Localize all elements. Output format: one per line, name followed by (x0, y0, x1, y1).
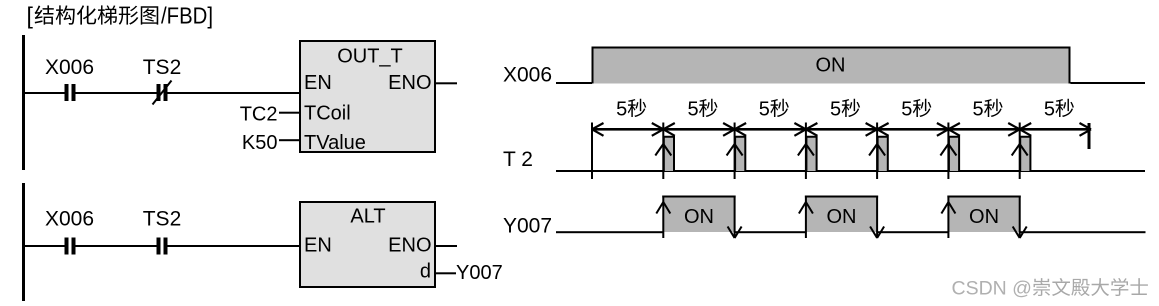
function block OUT_T body (300, 41, 435, 152)
T2 pulse #4 up arrowhead (869, 144, 877, 156)
svg-text:EN: EN (304, 235, 332, 257)
svg-text:ENO: ENO (388, 235, 431, 257)
Y007 low level segment 2 (735, 231, 806, 233)
wire rung 1 between contacts (76, 92, 157, 94)
X006 ON pulse (high level) (593, 48, 1070, 84)
Y007 pulse #3 rising-edge arrow (941, 202, 948, 214)
wire rung 2 between contacts (76, 245, 157, 247)
time boundary tick #5 (876, 123, 878, 180)
contact X006 NO (rung 2) (65, 238, 69, 255)
wire d output to Y007 (436, 272, 456, 274)
svg-text:5: 5 (830, 99, 841, 121)
svg-text:5: 5 (973, 99, 984, 121)
svg-text:TC2: TC2 (240, 103, 278, 125)
wire rung 2 from rail to contact X006 (24, 245, 65, 247)
T2 pulse #2 up arrowhead (727, 144, 735, 156)
contact X006 NO (rung 1) (65, 84, 69, 101)
T2 pulse #4 (878, 137, 888, 171)
svg-text:TS2: TS2 (143, 208, 182, 231)
svg-text:TS2: TS2 (143, 56, 182, 79)
svg-text:TValue: TValue (304, 132, 366, 154)
T2 pulse #3 up arrowhead (798, 144, 806, 156)
svg-text:Y007: Y007 (456, 262, 503, 284)
svg-text:CSDN @: CSDN @ (952, 278, 1032, 300)
svg-text:X006: X006 (45, 56, 94, 79)
Y007 ON pulse #3 (948, 197, 1019, 232)
Y007 pulse #3 falling-edge arrow (1013, 227, 1020, 239)
T2 base line (556, 170, 1145, 172)
contact TS2 NO (rung 2) (157, 238, 161, 255)
Y007 pulse #1 falling-edge arrow (728, 227, 735, 239)
T2 pulse #6 up arrowhead (1012, 144, 1020, 156)
wire TC2 to TCoil pin (279, 112, 300, 114)
Y007 ON pulse #2 (806, 197, 877, 232)
svg-text:5: 5 (1044, 99, 1055, 121)
svg-text:X006: X006 (503, 64, 552, 87)
Y007 pulse #2 falling-edge arrow (870, 227, 877, 239)
wire rung 1 from rail to contact X006 (24, 92, 65, 94)
Y007 pulse #1 rising-edge arrow (656, 202, 663, 214)
svg-text:ON: ON (816, 55, 846, 77)
svg-text:Y007: Y007 (503, 215, 552, 238)
time boundary tick #6 (947, 123, 949, 180)
T2 pulse #2 (735, 137, 745, 171)
svg-text:ON: ON (684, 206, 714, 228)
Y007 low level segment 4 (1020, 231, 1146, 233)
Y007 pulse #2 rising-edge arrow (799, 202, 806, 214)
svg-text:EN: EN (304, 72, 332, 94)
T2 pulse #1 up arrowhead (655, 144, 663, 156)
time boundary tick #3 (734, 123, 736, 180)
Y007 low level segment 1 (556, 231, 663, 233)
X006 low level after pulse (1071, 82, 1146, 84)
svg-text:[: [ (27, 3, 34, 29)
left power rail (network 2) (22, 183, 25, 301)
time boundary tick #4 (805, 123, 807, 180)
left power rail (network 1) (22, 35, 25, 170)
time boundary tick #2 (662, 123, 664, 180)
svg-text:5: 5 (687, 99, 698, 121)
svg-text:/FBD]: /FBD] (161, 3, 213, 29)
wire rung 2 from contact TS2 to EN pin (168, 245, 300, 247)
svg-text:ALT: ALT (350, 206, 385, 228)
X006 low level before pulse (556, 82, 592, 84)
T2 pulse #6 (1020, 137, 1030, 171)
svg-text:OUT_T: OUT_T (337, 46, 403, 68)
function block ALT body (300, 202, 435, 287)
svg-text:5: 5 (759, 99, 770, 121)
svg-text:X006: X006 (45, 208, 94, 231)
wire ENO output stub (OUT_T) (436, 82, 457, 84)
contact TS2 NC (rung 1) (157, 84, 161, 101)
Y007 ON pulse #1 (663, 197, 734, 232)
svg-text:T 2: T 2 (503, 148, 533, 171)
time boundary tick #8 (end) (1088, 123, 1091, 149)
svg-text:ON: ON (827, 206, 857, 228)
dimension arrow line (time axis) (592, 128, 1089, 131)
wire rung 1 from contact TS2 to EN pin (168, 92, 300, 94)
svg-text:TCoil: TCoil (304, 103, 351, 125)
wire ENO output stub (ALT) (436, 245, 457, 247)
svg-text:ENO: ENO (388, 72, 431, 94)
svg-text:5: 5 (616, 99, 627, 121)
time boundary tick #1 (591, 123, 593, 180)
svg-text:5: 5 (901, 99, 912, 121)
svg-text:K50: K50 (242, 132, 278, 154)
time boundary tick #7 (1019, 123, 1021, 180)
wire K50 to TValue pin (279, 139, 300, 141)
T2 pulse #5 up arrowhead (940, 144, 948, 156)
dimension arrowheads (592, 123, 604, 129)
svg-text:ON: ON (969, 206, 999, 228)
svg-text:d: d (420, 261, 431, 283)
T2 pulse #5 (949, 137, 959, 171)
T2 pulse #1 (664, 137, 674, 171)
T2 pulse #3 (806, 137, 816, 171)
Y007 low level segment 3 (877, 231, 948, 233)
